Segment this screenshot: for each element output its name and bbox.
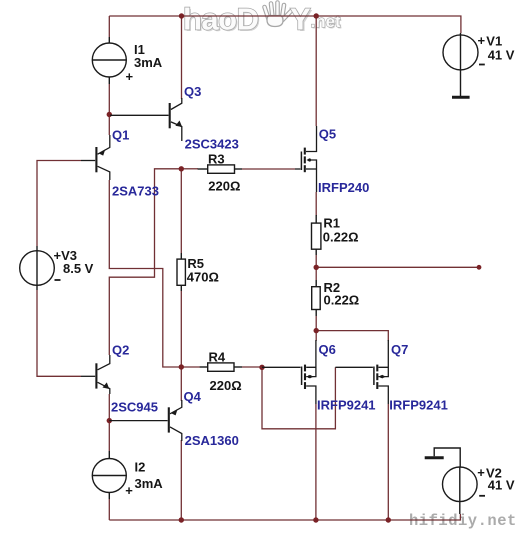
wire node A to R5 top — [180, 170, 182, 253]
svg-text:IRFP9241: IRFP9241 — [389, 398, 448, 413]
current source I1 — [92, 37, 126, 84]
svg-text:3mA: 3mA — [134, 55, 163, 70]
junction output line end — [477, 265, 482, 270]
svg-text:Q1: Q1 — [112, 128, 129, 143]
transistor Q2 — [81, 355, 110, 394]
svg-text:Q4: Q4 — [184, 389, 202, 404]
arrow Q5 body — [306, 158, 310, 162]
svg-text:Q2: Q2 — [112, 343, 129, 358]
resistor R4 — [200, 363, 242, 371]
arrow Q3 emitter — [175, 121, 182, 128]
voltage source V3 — [20, 246, 55, 290]
svg-text:+: + — [477, 465, 485, 480]
svg-text:haoD: haoD — [183, 2, 259, 37]
resistor R2 — [312, 280, 321, 316]
ground V1 — [452, 96, 470, 99]
transistor Q4 — [109, 400, 182, 441]
svg-text:2SA733: 2SA733 — [112, 184, 159, 199]
junction bottom rail Q4 — [179, 517, 184, 522]
junction bottom rail Q6 — [313, 517, 318, 522]
svg-text:+: + — [478, 33, 486, 48]
ground V2 — [425, 456, 444, 459]
junction Q4 base node — [107, 418, 112, 423]
svg-text:0.22Ω: 0.22Ω — [324, 293, 360, 308]
wire Q4 collector to bottom rail — [180, 440, 182, 520]
mosfet Q6 — [262, 340, 316, 404]
svg-text:8.5 V: 8.5 V — [63, 261, 94, 276]
wire node B to R4 left — [183, 366, 200, 368]
svg-text:2SC945: 2SC945 — [111, 400, 158, 415]
svg-text:+: + — [126, 69, 134, 84]
arrow Q2 emitter — [103, 382, 110, 389]
wire R2 bottom to node C — [315, 316, 317, 341]
svg-text:hifidiy.net: hifidiy.net — [409, 512, 517, 530]
resistor R5 — [177, 253, 185, 291]
junction node B — [179, 364, 184, 369]
svg-text:220Ω: 220Ω — [210, 378, 242, 393]
wire top rail — [109, 16, 461, 33]
svg-text:0.22Ω: 0.22Ω — [323, 229, 359, 244]
wire output line — [316, 266, 479, 268]
transistor Q1 — [81, 135, 110, 180]
wire Q7 drain to bottom rail — [387, 404, 389, 520]
svg-text:V1: V1 — [486, 33, 502, 48]
resistor R3 — [198, 165, 242, 173]
wire Q1 collector route to node B — [109, 180, 180, 367]
svg-text:Q3: Q3 — [184, 84, 201, 99]
svg-text:Y: Y — [290, 2, 311, 37]
transistor Q3 — [110, 98, 182, 141]
wire node C to Q7 source — [316, 331, 388, 341]
arrow Q6 body — [310, 375, 314, 379]
wire V3 bottom to Q2 base — [37, 290, 81, 376]
wire node A to Q2 collector — [109, 169, 180, 355]
arrow Q1 emitter — [99, 149, 105, 155]
wire R5 bottom to node B — [180, 291, 182, 365]
wire Q3 collector to top rail — [181, 16, 183, 99]
arrow Q4 emitter — [171, 409, 177, 415]
wire I1 top lead — [108, 16, 110, 37]
svg-text:41 V: 41 V — [488, 478, 515, 493]
wire Q1 base to V3 top — [37, 161, 81, 247]
wire Q4 emitter to node B — [180, 369, 182, 401]
svg-text:+: + — [125, 483, 133, 498]
arrow Q7 body — [382, 375, 386, 379]
svg-text:Q7: Q7 — [391, 342, 408, 357]
wire R3 right to Q5 gate — [242, 168, 295, 170]
svg-text:I2: I2 — [135, 460, 146, 475]
wire I2 bottom to bottom rail — [108, 499, 110, 520]
junction node A — [179, 166, 184, 171]
svg-text:Q5: Q5 — [319, 127, 336, 142]
svg-text:41 V: 41 V — [488, 47, 515, 62]
wire Q2 emitter to I2 — [108, 394, 110, 451]
svg-text:R1: R1 — [323, 216, 340, 231]
svg-text:IRFP9241: IRFP9241 — [317, 398, 376, 413]
svg-text:2SC3423: 2SC3423 — [185, 137, 239, 152]
wire bottom rail — [109, 514, 460, 520]
label V2 minus — [479, 495, 485, 497]
wire node A to R3 left — [183, 168, 198, 170]
svg-text:Q6: Q6 — [319, 342, 336, 357]
junction top rail Q3 — [179, 13, 184, 18]
label V1 minus — [479, 64, 485, 66]
mosfet Q5 — [295, 126, 317, 192]
watermark hifidiy.net — [409, 512, 518, 531]
voltage source V2 — [434, 448, 477, 514]
svg-text:2SA1360: 2SA1360 — [185, 433, 239, 448]
dot Q7 body — [380, 375, 383, 378]
wire Q5 source to R1 — [315, 192, 317, 216]
current source I2 — [92, 451, 126, 499]
svg-text:470Ω: 470Ω — [187, 270, 219, 285]
svg-text:R4: R4 — [209, 350, 226, 365]
junction top rail Q5 — [314, 13, 319, 18]
svg-text:R3: R3 — [208, 152, 225, 167]
watermark haoDIY.net — [183, 2, 342, 39]
wire R1 bottom to output node — [315, 255, 317, 280]
label V3 minus — [55, 279, 61, 281]
junction bottom rail Q7 — [386, 517, 391, 522]
junction gate node — [259, 365, 264, 370]
wire R4 right to gate node — [242, 366, 262, 368]
mosfet Q7 — [335, 340, 388, 404]
dot Q6 body — [308, 375, 311, 378]
dot Q5 body — [308, 159, 311, 162]
svg-text:220Ω: 220Ω — [208, 179, 240, 194]
junction Q3 base node — [107, 112, 112, 117]
junction output node — [314, 265, 319, 270]
junction node C — [314, 328, 319, 333]
wire Q6 drain to bottom rail — [315, 404, 317, 520]
watermark hand glyph — [265, 3, 292, 27]
voltage source V1 — [443, 33, 478, 96]
resistor R1 — [312, 215, 321, 255]
svg-text:3mA: 3mA — [135, 476, 164, 491]
wire Q5 drain to top rail — [315, 16, 317, 126]
wire I1 bottom to Q1 emitter — [108, 84, 110, 135]
wire gate node detour to Q7 gate — [262, 367, 335, 429]
svg-text:IRFP240: IRFP240 — [318, 180, 369, 195]
